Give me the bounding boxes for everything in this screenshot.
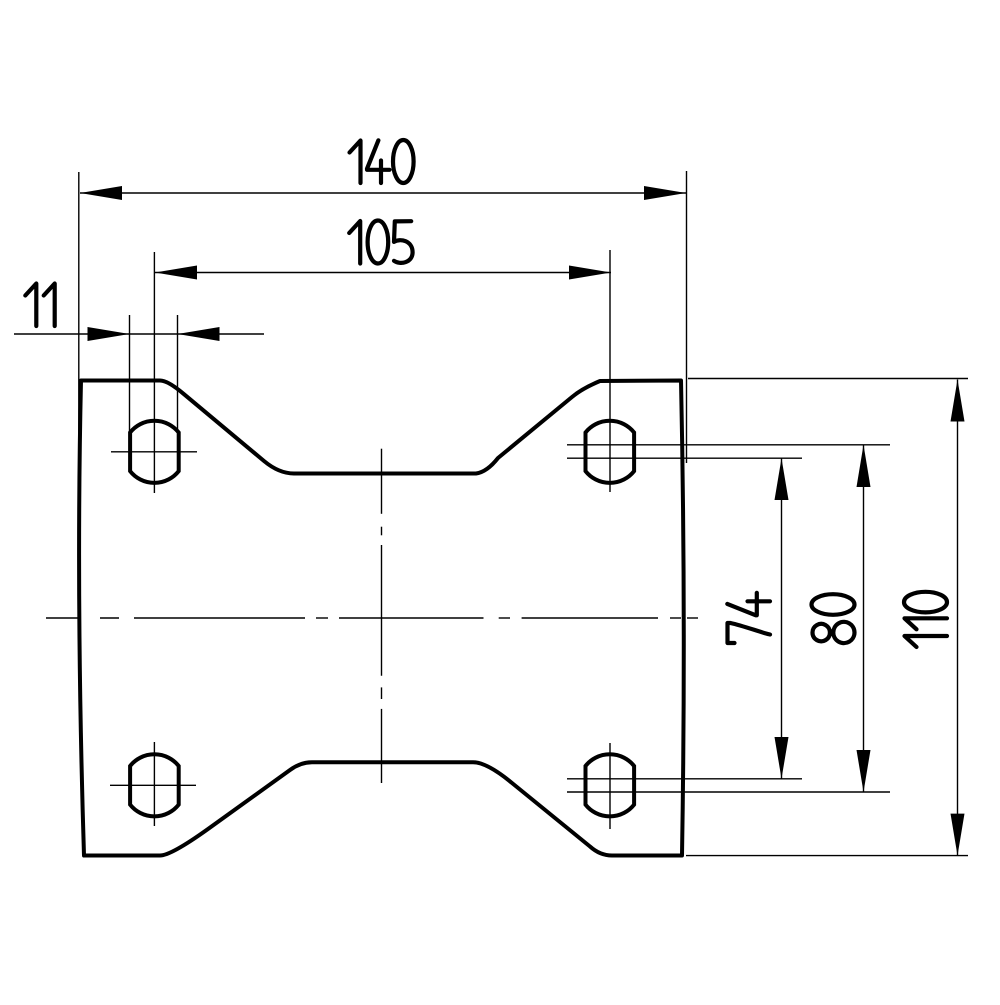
arrow 110 bottom — [951, 814, 965, 856]
extension line right 105 / top-right hole vertical — [609, 250, 611, 492]
hole top-right — [586, 421, 635, 483]
text 110 rotated — [904, 592, 947, 647]
extension line 80 top — [567, 444, 890, 446]
text 11 — [25, 284, 54, 327]
dim line 105 — [155, 272, 611, 274]
arrow 140 right — [644, 186, 686, 200]
arrow 80 bottom — [857, 750, 871, 792]
dimension 11 — [14, 315, 264, 432]
center line horizontal — [46, 617, 698, 619]
bottom-left hole vertical center line — [153, 742, 155, 826]
arrow 80 top — [857, 445, 871, 487]
dimension 105 — [154, 250, 611, 493]
arrow 105 left — [155, 266, 197, 280]
arrow 11 left — [88, 327, 130, 341]
dim line 140 — [80, 192, 686, 194]
dimension 140 — [79, 171, 687, 463]
extension line 80 bottom — [567, 791, 890, 793]
text 74 rotated — [727, 593, 770, 643]
arrow 105 right — [569, 266, 611, 280]
dim line 110 — [957, 380, 959, 856]
dimension 74 — [567, 458, 802, 779]
hole bottom-left — [130, 754, 179, 816]
hole center cross lines — [110, 452, 610, 829]
arrow 110 top — [951, 380, 965, 422]
plate outline — [79, 381, 684, 856]
extension line right 140 — [686, 171, 688, 463]
text 105 — [349, 221, 412, 264]
text 80 rotated — [812, 594, 855, 643]
extension line 110 top — [688, 378, 968, 380]
extension line left 105 / top-left hole vertical — [153, 252, 155, 493]
extension line left 140 — [78, 172, 80, 462]
extension line right 11 — [177, 315, 179, 432]
top-left hole horizontal center line — [111, 451, 197, 453]
arrow 11 right — [178, 327, 220, 341]
hole bottom-right — [586, 754, 635, 816]
text 140 — [350, 140, 414, 183]
arrow 140 left — [80, 186, 122, 200]
dimension 80 — [567, 445, 890, 792]
extension line 74 top — [567, 457, 802, 459]
bottom-right hole vertical center line — [609, 743, 611, 829]
dimension 110 — [686, 379, 968, 856]
arrow 74 top — [775, 458, 789, 500]
center line vertical — [381, 449, 383, 783]
dim line 80 — [863, 445, 865, 792]
extension line 74 bottom — [567, 778, 802, 780]
bottom-left hole horizontal center line — [110, 784, 196, 786]
dim line 11 — [14, 333, 264, 335]
extension line left 11 — [129, 315, 131, 432]
extension line 110 bottom — [686, 855, 968, 857]
arrow 74 bottom — [775, 737, 789, 779]
hole top-left — [130, 421, 179, 483]
dim line 74 — [781, 458, 783, 779]
